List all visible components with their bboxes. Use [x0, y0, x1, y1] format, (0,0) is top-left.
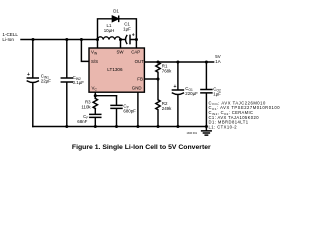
- wire CAP stub: [135, 40, 137, 49]
- wire ground rail: [33, 126, 207, 128]
- ground: [202, 127, 212, 136]
- svg-text:1µF: 1µF: [213, 92, 221, 97]
- capacitor CIN1: [27, 40, 38, 127]
- wire GND stub: [137, 92, 139, 126]
- svg-text:FB: FB: [137, 77, 143, 82]
- capacitor CP: [111, 96, 122, 127]
- svg-text:Li-Ion: Li-Ion: [2, 37, 14, 42]
- resistor R1: [156, 62, 160, 79]
- wire VC stub: [94, 92, 96, 98]
- svg-text:S/S: S/S: [91, 59, 98, 64]
- wire SW stub: [120, 40, 122, 49]
- svg-text:CAP: CAP: [131, 50, 140, 55]
- wire input rail: [21, 39, 98, 41]
- junction dots: [31, 38, 208, 128]
- svg-text:680pF: 680pF: [123, 108, 136, 113]
- wire SW node to C1: [121, 39, 125, 41]
- svg-text:L1: CTX10-2: L1: CTX10-2: [209, 124, 238, 129]
- capacitor CO1: [172, 62, 183, 127]
- wire VC to CP: [95, 95, 116, 97]
- svg-text:1µF: 1µF: [123, 27, 131, 32]
- svg-text:+: +: [174, 84, 177, 90]
- capacitor CIN2: [61, 40, 72, 127]
- IC U1 LT1306 body: [89, 48, 144, 92]
- capacitor C1: [126, 35, 137, 43]
- svg-text:GND: GND: [132, 86, 142, 91]
- svg-text:OUT: OUT: [135, 59, 145, 64]
- svg-text:220µF: 220µF: [185, 91, 198, 96]
- svg-text:110k: 110k: [81, 105, 91, 110]
- resistor R3: [93, 98, 97, 108]
- wire VIN stub: [97, 40, 99, 49]
- svg-text:LT1306: LT1306: [107, 67, 123, 72]
- svg-text:22µF: 22µF: [41, 79, 51, 84]
- capacitor CF: [90, 109, 101, 127]
- svg-text:1306 F01: 1306 F01: [187, 132, 198, 135]
- wire output rail: [144, 61, 213, 63]
- wire S/S connection: [81, 40, 89, 62]
- svg-text:10µH: 10µH: [104, 28, 115, 33]
- wire top loop: [98, 19, 137, 40]
- svg-text:D1: D1: [113, 8, 119, 13]
- notes: [209, 100, 281, 129]
- svg-text:1A: 1A: [215, 59, 220, 64]
- svg-text:SW: SW: [117, 50, 125, 55]
- svg-text:Figure 1. Single Li-Ion Cell t: Figure 1. Single Li-Ion Cell to 5V Conve…: [72, 144, 211, 151]
- svg-text:68nF: 68nF: [77, 119, 87, 124]
- svg-text:+: +: [27, 72, 30, 78]
- capacitor CO2: [201, 62, 212, 127]
- svg-text:249k: 249k: [162, 106, 172, 111]
- svg-text:0.1µF: 0.1µF: [73, 80, 85, 85]
- wire FB net: [144, 78, 158, 80]
- svg-text:768k: 768k: [162, 68, 172, 73]
- inductor L1: [98, 37, 121, 40]
- svg-text:+: +: [132, 32, 135, 38]
- resistor R2: [156, 79, 160, 127]
- diode D1: [112, 16, 118, 21]
